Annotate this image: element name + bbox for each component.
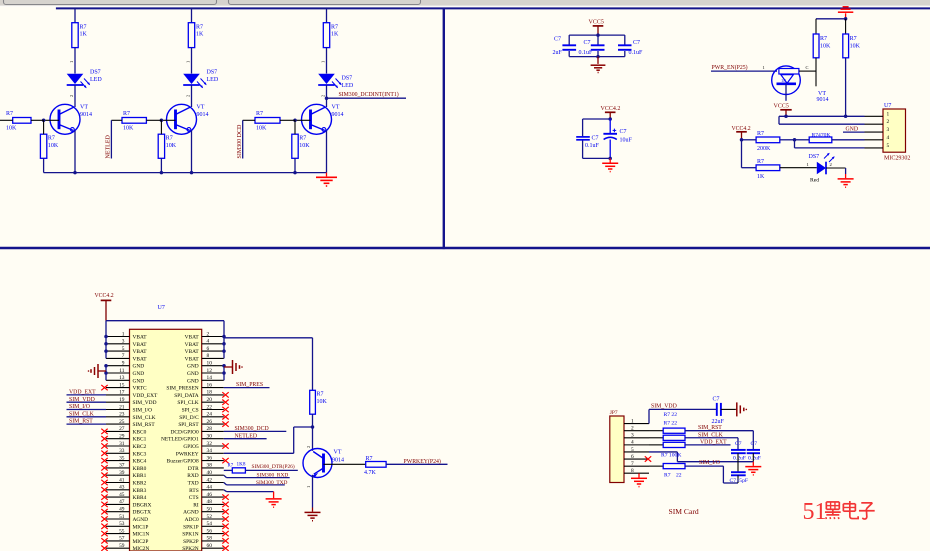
- svg-text:SPK1N: SPK1N: [182, 532, 199, 538]
- resistor R7 10K pulldown circuit 2: [158, 134, 164, 158]
- svg-text:C7: C7: [584, 40, 591, 46]
- wire U7 pin3 GND stub: [843, 131, 865, 133]
- U7 pin 42 TXD: [202, 482, 224, 484]
- svg-text:22uF: 22uF: [712, 419, 725, 425]
- svg-text:PWR_EN(P25): PWR_EN(P25): [712, 64, 748, 71]
- transistor VT 9014 circuit 1: [50, 104, 80, 134]
- no-connect X pin 22: [222, 407, 228, 412]
- svg-text:40: 40: [207, 470, 213, 476]
- capacitor C7 10uF polarized: [609, 119, 611, 133]
- svg-text:17: 17: [119, 390, 125, 396]
- ground LED DS7: [845, 174, 847, 178]
- U7 pin 52 ADC0: [202, 518, 224, 520]
- no-connect X pin 37: [101, 465, 107, 470]
- wire junction to pulldown circuit 3: [294, 120, 296, 134]
- svg-text:51: 51: [119, 514, 125, 520]
- svg-text:R7470K: R7470K: [812, 132, 831, 138]
- wire base resistor to junction circuit 1: [31, 119, 44, 121]
- svg-text:10K: 10K: [123, 126, 134, 132]
- U7 pin 29 KBC1: [106, 438, 130, 440]
- svg-text:VCC4.2: VCC4.2: [95, 293, 114, 299]
- U7 pin 2 VBAT: [202, 336, 224, 338]
- svg-text:SIM_RST: SIM_RST: [69, 419, 93, 425]
- wire filter top: [583, 118, 611, 120]
- svg-text:MIC1N: MIC1N: [133, 532, 150, 538]
- no-connect X pin 41: [101, 480, 107, 485]
- LED DS7 circuit 2: [183, 74, 200, 84]
- svg-text:SIM300_DTR(P26): SIM300_DTR(P26): [252, 463, 295, 470]
- svg-text:AGND: AGND: [133, 517, 149, 523]
- svg-text:KBR2: KBR2: [133, 481, 147, 487]
- svg-text:DS7: DS7: [207, 70, 218, 76]
- svg-text:10uF: 10uF: [620, 138, 633, 144]
- U7 pin 47 DBGRX: [106, 503, 130, 505]
- U7 pin 60 SPK2N: [202, 547, 224, 549]
- no-connect X pin 36: [222, 458, 228, 463]
- svg-text:3: 3: [887, 127, 890, 133]
- svg-text:56: 56: [207, 528, 213, 534]
- svg-text:8: 8: [207, 353, 210, 359]
- svg-text:1K: 1K: [196, 32, 204, 38]
- svg-text:4: 4: [207, 339, 210, 345]
- node bus junction x=75.0: [73, 171, 77, 175]
- wire PWR_EN: [711, 70, 777, 72]
- wire PWRKEY pin34 to collector node: [224, 452, 294, 454]
- wire LED to transistor circuit 3: [326, 85, 328, 107]
- svg-text:38: 38: [207, 463, 213, 469]
- no-connect X pin 27: [101, 429, 107, 434]
- svg-text:10K: 10K: [317, 399, 328, 405]
- svg-text:7: 7: [631, 461, 634, 467]
- svg-text:6: 6: [631, 454, 634, 460]
- svg-text:KBR0: KBR0: [133, 466, 147, 472]
- U7 pin 10 GND: [202, 365, 224, 367]
- resistor R7 1K circuit 1: [72, 23, 78, 48]
- transistor VT 9014 circuit 2: [167, 104, 197, 134]
- JP7 pin 4: [624, 444, 649, 446]
- svg-text:DBGTX: DBGTX: [133, 510, 152, 516]
- resistor R7 10K pulldown circuit 1: [40, 134, 46, 158]
- svg-text:R7: R7: [317, 392, 324, 398]
- U7 pin 7 VBAT: [106, 357, 130, 359]
- svg-text:RI: RI: [193, 502, 199, 508]
- svg-text:KBC2: KBC2: [133, 444, 147, 450]
- svg-text:13: 13: [119, 375, 125, 381]
- wire pin7 to R22d: [649, 465, 663, 467]
- svg-text:ADC0: ADC0: [185, 517, 199, 523]
- svg-text:9014: 9014: [332, 458, 344, 464]
- wire cap bank top bus: [569, 34, 625, 36]
- U7 pin 36 Buzzer/GPIO8: [202, 460, 224, 462]
- sheet horizontal divider wire: [0, 247, 930, 249]
- wire collector node to transistor: [312, 427, 314, 451]
- wire LED to ground: [826, 167, 846, 169]
- LED DS7 circuit 3: [318, 74, 335, 84]
- svg-text:29: 29: [119, 434, 125, 440]
- sheet top border wire: [56, 7, 930, 9]
- no-connect X pin 49: [101, 509, 107, 514]
- wire R7-1K to LED circuit 2: [191, 48, 193, 74]
- svg-text:53: 53: [119, 521, 125, 527]
- regulator U7 MIC29302 body: [883, 109, 906, 152]
- svg-text:34: 34: [207, 448, 213, 454]
- svg-text:TXD: TXD: [188, 481, 199, 487]
- svg-text:DBGRX: DBGRX: [133, 502, 152, 508]
- wire ground bus: [44, 172, 327, 174]
- wire R470K to U7 pin4: [832, 139, 865, 141]
- svg-text:SIM_VDD: SIM_VDD: [133, 400, 157, 406]
- svg-text:VT: VT: [818, 91, 826, 97]
- svg-text:R7: R7: [664, 472, 671, 478]
- svg-text:GND: GND: [187, 378, 199, 384]
- wire LED to transistor circuit 1: [74, 85, 76, 107]
- no-connect X pin 48: [222, 502, 228, 507]
- resistor R7 4.7K: [366, 462, 386, 468]
- svg-text:VDD_EXT: VDD_EXT: [69, 390, 96, 396]
- svg-text:C7: C7: [751, 441, 758, 447]
- svg-text:SIM_I/O: SIM_I/O: [699, 460, 720, 466]
- wire emitter to bus circuit 3: [326, 131, 328, 173]
- no-connect X pin 20: [222, 400, 228, 405]
- node VCC5 emitter junction: [784, 115, 788, 119]
- svg-text:SIM_I/O: SIM_I/O: [133, 408, 153, 414]
- svg-text:46: 46: [207, 492, 213, 498]
- no-connect X pin 60: [222, 546, 228, 551]
- svg-text:KBC0: KBC0: [133, 429, 147, 435]
- wire VBAT to R10K: [224, 337, 313, 339]
- resistor R7 10K base circuit 2: [122, 118, 146, 124]
- capacitor C7 0.1uF right: [624, 35, 626, 45]
- svg-text:1: 1: [887, 111, 890, 117]
- svg-text:RXD: RXD: [187, 473, 198, 479]
- resistor R7 10K base circuit 1: [13, 118, 31, 124]
- ground bus GND symbol: [326, 173, 328, 177]
- svg-text:KBC4: KBC4: [133, 459, 147, 465]
- svg-text:27: 27: [119, 426, 125, 432]
- toolbar strip: [0, 0, 930, 6]
- svg-text:R7 22: R7 22: [664, 421, 678, 427]
- svg-text:0.2uF: 0.2uF: [733, 455, 746, 461]
- U7 pin 55 MIC1N: [106, 533, 130, 535]
- no-connect X pin 55: [101, 531, 107, 536]
- U7 pin 44 RTS: [202, 489, 224, 491]
- svg-text:C7: C7: [735, 441, 742, 447]
- svg-text:15pF: 15pF: [737, 478, 749, 484]
- svg-text:6: 6: [207, 346, 210, 352]
- resistor R7 200K: [756, 137, 780, 143]
- svg-text:SIM_CLK: SIM_CLK: [69, 411, 95, 417]
- resistor R7 470K: [809, 137, 832, 143]
- U7 pin 28 DCD/GPIO0: [202, 430, 224, 432]
- capacitor C7 15pF: [731, 471, 746, 473]
- wire SIM_VDD riser: [648, 409, 650, 423]
- wire net stub SIM300 DCD: [243, 119, 255, 121]
- svg-text:32: 32: [207, 441, 213, 447]
- ground cap bank: [597, 57, 599, 64]
- svg-text:8: 8: [631, 468, 634, 474]
- svg-text:9014: 9014: [80, 112, 92, 118]
- wire U7 pin1 net: [779, 115, 865, 117]
- svg-text:9: 9: [122, 361, 125, 367]
- svg-text:1K: 1K: [781, 78, 787, 83]
- module U7 body: [130, 329, 202, 551]
- svg-text:10K: 10K: [256, 126, 267, 132]
- node VBAT left junction pin 3: [104, 342, 108, 346]
- U7 pin 11 GND: [106, 372, 130, 374]
- U7 pin 35 KBC4: [106, 460, 130, 462]
- svg-text:VT: VT: [332, 105, 340, 111]
- svg-text:VRTC: VRTC: [133, 386, 147, 392]
- svg-text:11: 11: [119, 368, 124, 374]
- no-connect X pin 43: [101, 487, 107, 492]
- svg-text:SIM300_RXD: SIM300_RXD: [257, 473, 289, 479]
- svg-text:22: 22: [207, 404, 213, 410]
- no-connect X pin 54: [222, 524, 228, 529]
- svg-text:SIM_I/O: SIM_I/O: [69, 404, 90, 410]
- svg-text:U7: U7: [158, 305, 165, 311]
- JP7 pin 3: [624, 437, 649, 439]
- U7 pin 19 SIM_VDD: [106, 401, 130, 403]
- svg-text:VBAT: VBAT: [133, 349, 148, 355]
- svg-text:SPI_CLK: SPI_CLK: [177, 400, 198, 406]
- resistor R7 10K pullup left: [813, 34, 819, 58]
- wire net VDD_EXT: [685, 444, 731, 446]
- U7 pin 53 MIC1P: [106, 525, 130, 527]
- node collector junction: [311, 425, 315, 429]
- wire base to R4.7K: [324, 463, 366, 465]
- U7 regulator pin 5: [865, 147, 884, 149]
- svg-text:54: 54: [207, 521, 213, 527]
- svg-text:CTS: CTS: [189, 495, 199, 501]
- resistor R7 10K collector: [310, 390, 316, 414]
- svg-text:C7: C7: [730, 478, 737, 484]
- svg-text:39: 39: [119, 470, 125, 476]
- U7 pin 58 SPK2P: [202, 540, 224, 542]
- ground RTS: [273, 492, 275, 499]
- svg-text:1: 1: [185, 61, 190, 63]
- svg-text:5: 5: [887, 143, 890, 149]
- svg-text:VCC4.2: VCC4.2: [601, 106, 621, 112]
- svg-text:R7: R7: [850, 36, 857, 42]
- svg-text:VBAT: VBAT: [185, 335, 200, 341]
- wire pullup left drop: [815, 19, 817, 34]
- svg-text:JP7: JP7: [610, 410, 618, 416]
- wire filter bottom: [583, 157, 611, 159]
- wire collector to pullup: [810, 70, 816, 72]
- svg-text:KBR1: KBR1: [133, 473, 147, 479]
- wire net SIM300_DTR: [245, 469, 297, 471]
- wire emitter to bus circuit 1: [74, 131, 76, 173]
- svg-text:VBAT: VBAT: [185, 342, 200, 348]
- resistor R7 10K base circuit 3: [255, 118, 280, 124]
- U7 pin 41 KBR2: [106, 482, 130, 484]
- U7 regulator pin 3: [865, 131, 884, 133]
- svg-text:VBAT: VBAT: [133, 335, 148, 341]
- svg-text:1K: 1K: [80, 32, 88, 38]
- svg-text:200K: 200K: [757, 146, 771, 152]
- svg-text:AGND: AGND: [183, 510, 199, 516]
- svg-text:25: 25: [119, 419, 125, 425]
- svg-text:41: 41: [119, 477, 125, 483]
- wire base resistor to junction circuit 3: [280, 119, 295, 121]
- wire pin3 to R22b: [649, 437, 663, 439]
- wire net SIM_PRES: [224, 387, 270, 389]
- resistor R7 10K pulldown circuit 3: [292, 134, 298, 158]
- logo glyph dian: [849, 501, 851, 513]
- svg-text:16: 16: [207, 382, 213, 388]
- wire net SIM_RST: [67, 423, 107, 425]
- wire net SIM_VDD: [649, 408, 716, 410]
- svg-text:10K: 10K: [850, 44, 861, 50]
- svg-text:SPI_D/C: SPI_D/C: [179, 415, 199, 421]
- svg-text:DTR: DTR: [188, 466, 199, 472]
- U7 pin 16 SIM_PRESEN: [202, 387, 224, 389]
- wire GND left bus: [105, 366, 107, 381]
- svg-text:43: 43: [119, 485, 125, 491]
- wire VCC4.2 down to LED row: [741, 140, 743, 168]
- node base junction circuit 1: [42, 119, 46, 123]
- wire LED row left: [742, 167, 757, 169]
- U7 pin 54 SPK1P: [202, 525, 224, 527]
- wire junction to pulldown circuit 1: [43, 120, 45, 134]
- svg-text:R7 22: R7 22: [664, 412, 678, 418]
- svg-text:GND: GND: [133, 371, 145, 377]
- node VBAT right junction pin 2: [222, 335, 226, 339]
- U7 pin 27 KBC0: [106, 430, 130, 432]
- wire net SIM_I/O: [685, 465, 723, 467]
- svg-text:48: 48: [207, 499, 213, 505]
- resistor R7 1K LED: [756, 165, 780, 171]
- svg-text:5: 5: [631, 447, 634, 453]
- wire pin4 to R22c: [649, 444, 663, 446]
- svg-text:DCD/GPIO0: DCD/GPIO0: [171, 429, 199, 435]
- svg-text:C7: C7: [592, 136, 599, 142]
- svg-text:VDD_EXT: VDD_EXT: [133, 393, 159, 399]
- U7 pin 5 VBAT: [106, 350, 130, 352]
- svg-text:VCC4.2: VCC4.2: [732, 126, 751, 132]
- no-connect X JP7 pin 6: [645, 456, 651, 461]
- svg-text:10K: 10K: [6, 126, 17, 132]
- ground SIM caps: [752, 462, 754, 466]
- svg-text:NETLED/GPIO1: NETLED/GPIO1: [161, 437, 199, 443]
- capacitor C7 0.1uF filter: [582, 119, 584, 136]
- U7 pin 12 GND: [202, 372, 224, 374]
- svg-text:45: 45: [119, 492, 125, 498]
- svg-text:4: 4: [631, 440, 634, 446]
- wire GND right stem: [224, 366, 232, 368]
- svg-text:MIC1P: MIC1P: [133, 524, 149, 530]
- svg-text:60: 60: [207, 543, 213, 549]
- U7 pin 13 GND: [106, 379, 130, 381]
- node GND right junction: [222, 364, 226, 368]
- wire VCC4.2 to R200K: [742, 139, 757, 141]
- resistor R7 1K circuit 3: [323, 23, 329, 48]
- JP7 pin 8: [624, 472, 649, 474]
- wire pullup top: [816, 18, 846, 20]
- svg-text:RTS: RTS: [189, 488, 199, 494]
- U7 regulator pin 1: [865, 115, 884, 117]
- svg-text:36: 36: [207, 455, 213, 461]
- no-connect X pin 18: [222, 392, 228, 397]
- svg-text:9014: 9014: [332, 112, 344, 118]
- node bus junction x=191.5: [190, 171, 194, 175]
- svg-text:KBC3: KBC3: [133, 451, 147, 457]
- svg-text:VDD_EXT: VDD_EXT: [700, 439, 727, 445]
- node pullup top junction: [844, 17, 848, 21]
- no-connect X pin 52: [222, 516, 228, 521]
- wire junction to pulldown circuit 2: [160, 120, 162, 134]
- wire U7 pin2 to pin1 net: [779, 123, 865, 125]
- no-connect X pin 45: [101, 494, 107, 499]
- svg-text:18: 18: [207, 390, 213, 396]
- no-connect X pin 57: [101, 538, 107, 543]
- svg-text:1: 1: [122, 331, 125, 337]
- node VCC4.2 divider junction: [740, 138, 744, 142]
- svg-text:SIM300_DCDINT(INT1): SIM300_DCDINT(INT1): [339, 91, 399, 98]
- JP7 pin 2: [624, 430, 649, 432]
- svg-text:1K: 1K: [331, 32, 339, 38]
- svg-text:MIC2P: MIC2P: [133, 539, 149, 545]
- svg-text:2: 2: [185, 95, 190, 97]
- no-connect X pin 31: [101, 443, 107, 448]
- wire capA to capC: [737, 453, 739, 472]
- no-connect X pin 32: [222, 443, 228, 448]
- node cap bank top junction: [596, 33, 600, 37]
- svg-text:4: 4: [887, 135, 890, 141]
- wire top feed circuit 3: [326, 8, 328, 22]
- U7 pin 32 GPIO5: [202, 445, 224, 447]
- node base junction circuit 3: [293, 119, 297, 123]
- svg-text:42: 42: [207, 477, 213, 483]
- wire pulldown to bus circuit 2: [160, 158, 162, 172]
- capacitor C7 22uF: [716, 403, 718, 416]
- LED DS7 circuit 1: [67, 74, 84, 84]
- svg-text:KBR3: KBR3: [133, 488, 147, 494]
- wire base junction to base circuit 1: [44, 119, 59, 121]
- wire emitter pin: [785, 84, 787, 101]
- svg-text:VBAT: VBAT: [133, 342, 148, 348]
- svg-text:C7: C7: [713, 397, 720, 403]
- logo glyph hei: [826, 501, 839, 503]
- resistor R7 22 b: [663, 435, 685, 440]
- svg-text:DS7: DS7: [809, 154, 820, 160]
- wire R1K to LED DS7: [780, 167, 817, 169]
- wire GND right bus: [223, 366, 225, 381]
- no-connect X pin 39: [101, 473, 107, 478]
- svg-text:2: 2: [306, 446, 311, 448]
- svg-text:0.1uF: 0.1uF: [579, 50, 594, 56]
- svg-text:31: 31: [119, 441, 125, 447]
- no-connect X pin 53: [101, 524, 107, 529]
- toolbar button 2: [229, 0, 421, 5]
- node divider junction: [793, 138, 797, 142]
- wire R7-1K to LED circuit 1: [74, 48, 76, 74]
- svg-text:9014: 9014: [817, 97, 829, 103]
- svg-text:SIM300 DCD: SIM300 DCD: [237, 124, 243, 159]
- svg-text:2: 2: [207, 331, 210, 337]
- svg-text:21: 21: [119, 404, 125, 410]
- svg-text:SIM_RST: SIM_RST: [698, 425, 722, 431]
- svg-text:SIM_CLK: SIM_CLK: [698, 432, 724, 438]
- svg-text:0.1uF: 0.1uF: [629, 50, 644, 56]
- sheet vertical divider wire: [443, 8, 445, 249]
- wire net SIM_RST: [685, 430, 753, 432]
- svg-text:51: 51: [803, 499, 827, 525]
- node filter top junction: [608, 117, 612, 121]
- svg-text:1: 1: [763, 65, 765, 70]
- wire top feed circuit 1: [74, 8, 76, 22]
- U7 pin 59 MIC2N: [106, 547, 130, 549]
